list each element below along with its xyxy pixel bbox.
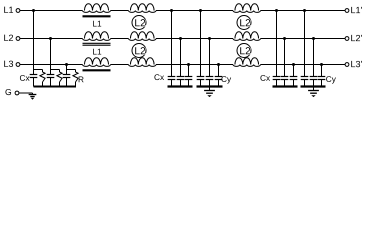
capacitor Cx2 (47, 74, 55, 76)
wire cap3 bottom stub (66, 78, 68, 87)
capacitor CxM3 (185, 76, 193, 78)
wire CyR1 bottom stub (304, 80, 306, 87)
junction node pair2 on rail (49, 37, 52, 40)
wire resistor2 bottom stub (59, 82, 61, 87)
svg-text:L2’: L2’ (350, 33, 362, 43)
wire drop CxM3 (188, 65, 190, 77)
wire T-split pair1 (34, 69, 43, 71)
inductor L2a winding row 1 (129, 11, 157, 13)
svg-text:L1: L1 (3, 5, 13, 15)
wire drop CyR1 (304, 11, 306, 77)
wire L3 between chokes (111, 64, 129, 66)
wire drop CyR2 (313, 39, 315, 77)
wire bus CxM (168, 85, 193, 87)
wire ground stub CyR (313, 87, 315, 91)
wire CxR2 bottom stub (284, 80, 286, 87)
core bars L1 row 1 (83, 15, 111, 17)
core bars L1 row 3 (83, 69, 111, 71)
junction node CxR2 (283, 37, 286, 40)
ground (G) (29, 94, 37, 96)
junction node CyM2 (208, 37, 211, 40)
wire drop pair2 (50, 39, 52, 70)
terminal L3 circle (16, 63, 20, 67)
svg-text:Cx: Cx (260, 73, 271, 83)
wire star-point bus (left) (34, 86, 77, 88)
capacitor CyM2 (206, 76, 214, 78)
wire drop pair1 (33, 11, 35, 70)
wire drop CyM3 (218, 65, 220, 77)
svg-text:Cx: Cx (154, 72, 165, 82)
terminal L1 circle (16, 9, 20, 13)
capacitor Cx1 (30, 74, 38, 76)
junction node CxM1 (170, 9, 173, 12)
ground (CyR) (308, 90, 319, 92)
wire resistor1 bottom stub (42, 82, 44, 87)
terminal L1’ circle (345, 9, 349, 13)
wire L2 middle segment (156, 38, 233, 40)
inductor L1 winding row 1 (83, 11, 111, 13)
wire resistor3 top stub (75, 70, 77, 73)
capacitor CyR3 (318, 76, 326, 78)
wire L2 input segment (20, 38, 83, 40)
wire drop CxM1 (171, 11, 173, 77)
svg-text:L2: L2 (3, 33, 13, 43)
wire resistor2 top stub (59, 70, 61, 73)
wire bus CxR (273, 85, 298, 87)
wire drop CxR2 (284, 39, 286, 77)
wire drop CxM2 (180, 39, 182, 77)
junction node CyM1 (199, 9, 202, 12)
svg-text:L1’: L1’ (350, 5, 362, 15)
wire CxM1 bottom stub (171, 80, 173, 87)
label L2 circled (row1) (132, 16, 146, 30)
core bars L1 row 2 (83, 42, 111, 44)
inductor L1 winding row 2 (83, 39, 111, 41)
junction node pair1 on rail (32, 9, 35, 12)
inductor L2b winding row 3 (233, 65, 261, 67)
wire cap1 top stub (33, 70, 35, 75)
capacitor CxM2 (177, 76, 185, 78)
wire resistor3 bottom stub (75, 82, 77, 87)
wire CyM2 bottom stub (209, 80, 211, 87)
terminal L2’ circle (345, 37, 349, 41)
wire L1 input segment (20, 10, 83, 12)
wire ground stub (32, 93, 34, 95)
inductor L1 winding row 3 (83, 65, 111, 67)
label L2 circled (row1, second) (237, 16, 251, 30)
capacitor CyR1 (301, 76, 309, 78)
wire CxM2 bottom stub (180, 80, 182, 87)
junction node CxR3 (292, 63, 295, 66)
wire CyR3 bottom stub (321, 80, 323, 87)
svg-text:L2: L2 (239, 46, 251, 57)
svg-text:L2: L2 (134, 46, 146, 57)
wire L1 between chokes (111, 10, 129, 12)
resistor R1 (40, 72, 45, 82)
wire L1 middle segment (156, 10, 233, 12)
wire L2 output segment (261, 38, 346, 40)
svg-text:Cy: Cy (221, 74, 232, 84)
svg-text:L1: L1 (92, 46, 102, 56)
wire resistor1 top stub (42, 70, 44, 73)
svg-text:R: R (78, 74, 84, 84)
wire L3 input segment (20, 64, 83, 66)
capacitor CxM1 (168, 76, 176, 78)
wire drop pair3 (66, 65, 68, 70)
junction node CxM2 (179, 37, 182, 40)
svg-text:Cx: Cx (19, 73, 30, 83)
wire bus CyR (301, 85, 326, 87)
wire drop CxR1 (276, 11, 278, 77)
wire L2 between chokes (111, 38, 129, 40)
wire CyM1 bottom stub (200, 80, 202, 87)
wire bus CyM (197, 85, 223, 87)
wire ground stub CyM (209, 87, 211, 91)
label L2 circled (row2, second) (237, 44, 251, 58)
junction node CxR1 (275, 9, 278, 12)
capacitor CxR1 (273, 76, 281, 78)
svg-text:L1: L1 (92, 18, 102, 28)
wire drop CyR3 (321, 65, 323, 77)
inductor L2b winding row 2 (233, 39, 261, 41)
wire T-split pair2 (51, 69, 60, 71)
wire drop CyM2 (209, 39, 211, 77)
wire CxR3 bottom stub (293, 80, 295, 87)
svg-text:L2: L2 (239, 18, 251, 29)
wire drop CxR3 (293, 65, 295, 77)
wire CxR1 bottom stub (276, 80, 278, 87)
terminal G circle (15, 91, 19, 95)
terminal L3’ circle (345, 63, 349, 67)
wire CxM3 bottom stub (188, 80, 190, 87)
wire cap2 top stub (50, 70, 52, 75)
capacitor Cx3 (63, 74, 71, 76)
resistor R2 (57, 72, 62, 82)
resistor R3 (73, 72, 78, 82)
svg-text:Cy: Cy (326, 74, 337, 84)
label L2 circled (row2) (132, 44, 146, 58)
junction node CyR1 (303, 9, 306, 12)
junction node CyR3 (320, 63, 323, 66)
capacitor CyR2 (310, 76, 318, 78)
capacitor CxR2 (281, 76, 289, 78)
wire T-split pair3 (67, 69, 76, 71)
wire CyR2 bottom stub (313, 80, 315, 87)
wire L1 output segment (261, 10, 346, 12)
capacitor CyM3 (215, 76, 223, 78)
inductor L2a winding row 2 (129, 39, 157, 41)
wire cap3 top stub (66, 70, 68, 75)
wire CyM3 bottom stub (218, 80, 220, 87)
svg-text:G: G (5, 87, 12, 97)
wire cap2 bottom stub (50, 78, 52, 87)
inductor L2b winding row 1 (233, 11, 261, 13)
terminal L2 circle (16, 37, 20, 41)
capacitor CxR3 (290, 76, 298, 78)
capacitor CyM1 (197, 76, 205, 78)
svg-text:L2: L2 (134, 18, 146, 29)
wire drop CyM1 (200, 11, 202, 77)
wire L3 output segment (261, 64, 346, 66)
wire cap1 bottom stub (33, 78, 35, 87)
junction node CyM3 (217, 63, 220, 66)
wire L3 middle segment (156, 64, 233, 66)
svg-text:L3: L3 (3, 59, 13, 69)
ground (CyM) (204, 90, 215, 92)
inductor L2a winding row 3 (129, 65, 157, 67)
junction node pair3 on rail (65, 63, 68, 66)
junction node CxM3 (187, 63, 190, 66)
svg-text:L3’: L3’ (350, 59, 362, 69)
wire G terminal (19, 92, 33, 94)
junction node CyR2 (312, 37, 315, 40)
